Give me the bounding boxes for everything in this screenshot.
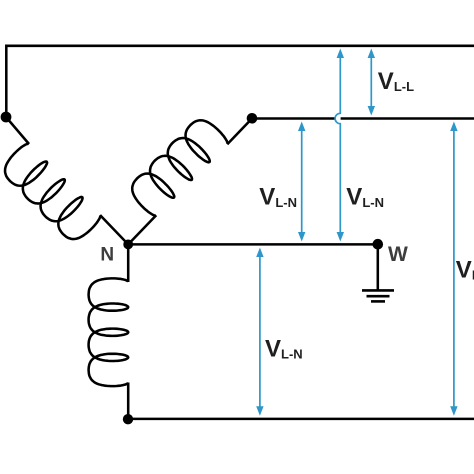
svg-text:W: W	[388, 243, 408, 266]
svg-text:N: N	[100, 244, 114, 265]
svg-text:VL-N: VL-N	[456, 257, 474, 284]
